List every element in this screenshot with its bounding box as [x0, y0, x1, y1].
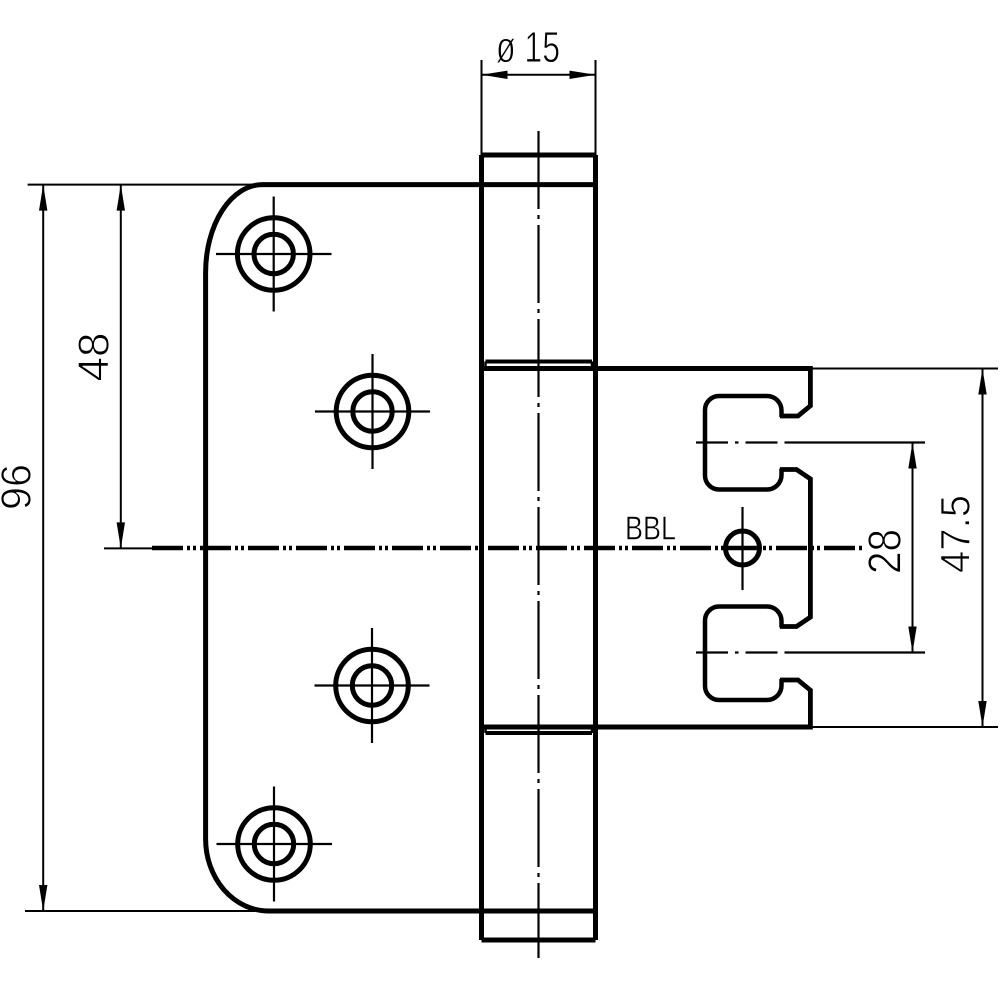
svg-text:96: 96: [0, 464, 41, 510]
knuckle joint lower: [482, 727, 811, 733]
svg-text:28: 28: [859, 529, 911, 574]
barrel axis centerline: [537, 131, 539, 958]
dimension 28 (right inner): [912, 443, 914, 653]
BBL reference centerline: [104, 547, 863, 549]
screw hole H2: [315, 354, 430, 469]
screw hole H4: [217, 787, 333, 902]
upper slot cutout: [705, 396, 782, 490]
dimension 96 (left): [25, 185, 269, 911]
bracket screw hole: [726, 507, 760, 590]
svg-text:47.5: 47.5: [932, 495, 979, 573]
dimension 47.5 (far right): [810, 369, 998, 728]
dimension 48 (left inner): [120, 185, 122, 549]
barrel knuckle column: [482, 155, 596, 940]
dimension ø15 (top): [482, 60, 596, 155]
lower slot centerline (28 extension): [696, 651, 788, 653]
screw hole H1: [216, 197, 332, 312]
svg-text:ø 15: ø 15: [496, 23, 560, 72]
hinge leaf (left plate) outline: [206, 185, 596, 911]
knuckle joint upper: [482, 362, 811, 369]
svg-text:48: 48: [70, 333, 119, 382]
screw hole H3: [315, 628, 430, 743]
frame bracket right edge with slot lips: [780, 366, 810, 730]
lower slot cutout: [705, 607, 782, 701]
upper slot centerline (28 extension): [696, 441, 788, 443]
svg-text:BBL: BBL: [625, 510, 676, 547]
